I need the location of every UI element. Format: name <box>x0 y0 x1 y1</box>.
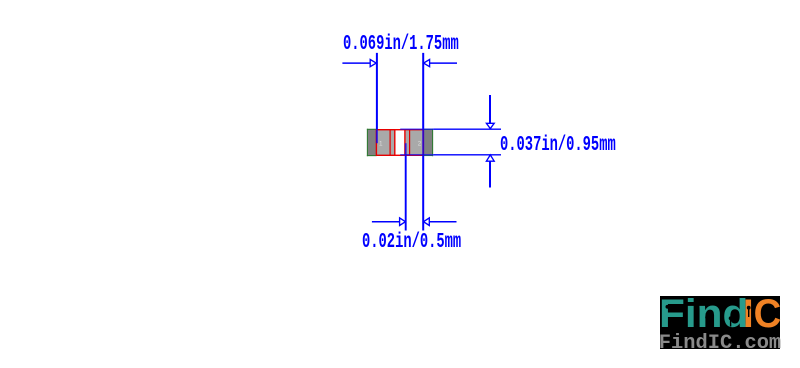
svg-text:1: 1 <box>379 140 383 147</box>
svg-text:2: 2 <box>418 140 422 147</box>
